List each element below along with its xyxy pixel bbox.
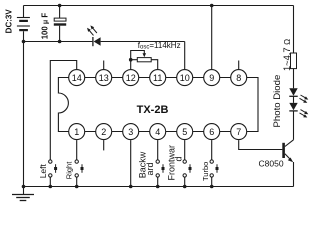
pin 5 xyxy=(177,124,193,140)
svg-text:5: 5 xyxy=(182,127,187,137)
switch S4 Frontward xyxy=(183,160,192,187)
pin 2 xyxy=(96,124,112,140)
svg-text:2: 2 xyxy=(101,127,106,137)
junction R1 / pin12 wire xyxy=(129,58,133,62)
pin 13 xyxy=(96,70,112,86)
svg-text:1~4.7 Ω: 1~4.7 Ω xyxy=(282,39,292,71)
stub pin8 xyxy=(238,61,240,70)
svg-text:C8050: C8050 xyxy=(259,159,284,169)
svg-text:11: 11 xyxy=(153,73,162,83)
svg-text:13: 13 xyxy=(99,73,109,83)
svg-text:14: 14 xyxy=(72,73,82,83)
junction cap / top rail xyxy=(58,4,62,8)
ground symbol xyxy=(12,187,34,201)
wire pin6 to Turbo switch xyxy=(211,140,213,160)
svg-text:Turbo: Turbo xyxy=(201,162,210,181)
LED D1 indicator xyxy=(93,37,185,46)
pin 7 xyxy=(231,124,247,140)
photo diode D2 xyxy=(289,88,297,103)
trimmer resistor R1 oscillator xyxy=(131,51,158,70)
wire pin9 to top rail xyxy=(211,6,213,70)
resistor R2 1~4.7ohm xyxy=(291,6,297,89)
svg-text:Photo Diode: Photo Diode xyxy=(272,75,283,128)
junction Frontward switch / ground rail xyxy=(183,185,187,189)
junction battery / rail2 xyxy=(22,40,26,44)
pin 9 xyxy=(204,70,220,86)
switch S3 Backward xyxy=(156,160,165,187)
pin 6 xyxy=(204,124,220,140)
wire pin14 loop to Left switch xyxy=(50,61,76,160)
label fosc=114kHz xyxy=(138,41,181,51)
svg-text:8: 8 xyxy=(236,73,241,83)
svg-text:ard: ard xyxy=(145,162,155,175)
wire pin4 to Backward switch xyxy=(157,140,159,160)
wire ground rail xyxy=(24,186,294,188)
svg-text:9: 9 xyxy=(209,73,214,83)
pin 14 xyxy=(69,70,85,86)
stub pin2 xyxy=(103,140,105,150)
label 100uF xyxy=(40,13,49,40)
label Backward xyxy=(137,151,155,178)
label Frontward xyxy=(166,145,183,181)
pin 10 xyxy=(177,70,193,86)
wire top positive rail xyxy=(24,5,294,7)
switch S5 Turbo xyxy=(210,160,219,187)
svg-text:DC:3V: DC:3V xyxy=(5,9,14,34)
svg-text:Frontwar: Frontwar xyxy=(166,145,176,181)
junction Right switch / ground rail xyxy=(75,185,79,189)
photo diode D3 xyxy=(289,103,297,140)
stub pin13 xyxy=(103,61,105,70)
junction cap / rail2 xyxy=(58,40,62,44)
junction pin3 wire / ground rail xyxy=(129,185,133,189)
label Left xyxy=(38,163,48,178)
wire pin3 to ground rail xyxy=(130,140,132,186)
svg-text:TX-2B: TX-2B xyxy=(137,104,169,116)
svg-text:10: 10 xyxy=(180,73,190,83)
pin 4 xyxy=(150,124,166,140)
svg-text:6: 6 xyxy=(209,127,214,137)
D2 emission arrows xyxy=(300,95,309,103)
junction Backward switch / ground rail xyxy=(156,185,160,189)
label 1~4.7 ohm xyxy=(282,39,292,71)
pin 11 xyxy=(150,70,166,86)
svg-text:7: 7 xyxy=(236,127,241,137)
pin 3 xyxy=(123,124,139,140)
switch S2 Right xyxy=(75,160,84,187)
LED D1 emission arrows xyxy=(87,25,97,35)
junction battery / ground rail xyxy=(22,185,26,189)
battery B1 DC:3V xyxy=(17,6,30,187)
IC U1 TX-2B body xyxy=(58,78,258,132)
label Photo Diode xyxy=(272,75,283,128)
label DC:3V xyxy=(5,9,14,34)
wire pin1 to Right switch xyxy=(76,140,78,160)
svg-text:12: 12 xyxy=(126,73,136,83)
transistor Q1 C8050 xyxy=(284,140,294,187)
svg-text:Right: Right xyxy=(64,161,73,179)
svg-text:3: 3 xyxy=(128,127,133,137)
capacitor C1 100uF electrolytic xyxy=(54,6,66,42)
wire pin5 to Frontward switch xyxy=(184,140,186,160)
wire negative rail 2 xyxy=(24,41,93,43)
svg-text:4: 4 xyxy=(155,127,160,137)
D3 emission arrows xyxy=(300,110,309,118)
label Turbo xyxy=(201,162,210,181)
switch S1 Left xyxy=(49,160,58,187)
wire pin7 to transistor base xyxy=(239,140,283,149)
label C8050 xyxy=(259,159,284,169)
label Right xyxy=(64,161,73,179)
junction Left switch / ground rail xyxy=(49,185,53,189)
pin 12 xyxy=(123,70,139,86)
label TX-2B xyxy=(137,104,169,116)
junction pin9 / top rail xyxy=(210,4,214,8)
junction Turbo switch / ground rail xyxy=(210,185,214,189)
svg-text:1: 1 xyxy=(74,127,79,137)
svg-text:Left: Left xyxy=(38,163,48,178)
svg-text:d: d xyxy=(174,156,184,161)
wire rail2 to pin10 xyxy=(184,42,186,70)
pin 8 xyxy=(231,70,247,86)
svg-text:100 μ F: 100 μ F xyxy=(40,13,49,40)
pin 1 xyxy=(69,124,85,140)
